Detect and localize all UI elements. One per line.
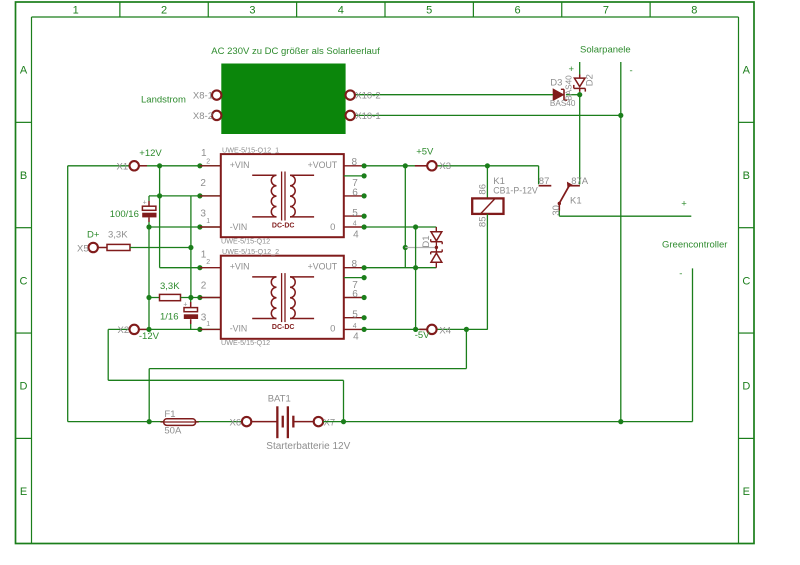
svg-text:D1: D1 <box>421 235 432 247</box>
svg-text:A: A <box>743 65 751 77</box>
svg-text:UWE-5/15-Q12: UWE-5/15-Q12 <box>221 236 270 245</box>
svg-text:BAS40: BAS40 <box>550 99 576 108</box>
svg-text:Solarpanele: Solarpanele <box>580 45 631 56</box>
svg-text:+12V: +12V <box>139 148 162 159</box>
svg-text:+VOUT: +VOUT <box>308 262 338 272</box>
svg-text:1: 1 <box>73 5 79 17</box>
svg-text:4: 4 <box>353 221 357 228</box>
svg-text:6: 6 <box>352 187 358 198</box>
svg-text:2: 2 <box>206 158 210 165</box>
svg-text:+VIN: +VIN <box>230 160 250 170</box>
svg-text:2: 2 <box>206 259 210 266</box>
svg-text:0: 0 <box>330 222 335 233</box>
svg-text:D: D <box>742 381 750 393</box>
svg-text:+VOUT: +VOUT <box>308 160 338 170</box>
svg-text:85: 85 <box>477 217 488 228</box>
svg-text:3,3K: 3,3K <box>108 229 128 240</box>
svg-text:1: 1 <box>201 148 207 159</box>
svg-text:1: 1 <box>206 321 210 328</box>
svg-text:3: 3 <box>249 5 255 17</box>
svg-text:CB1-P-12V: CB1-P-12V <box>493 186 538 196</box>
svg-text:5: 5 <box>352 208 358 219</box>
svg-text:A: A <box>20 65 28 77</box>
svg-text:-: - <box>679 269 682 280</box>
svg-text:2: 2 <box>161 5 167 17</box>
svg-text:E: E <box>743 486 750 498</box>
svg-text:E: E <box>20 486 27 498</box>
svg-text:0: 0 <box>330 324 335 335</box>
svg-text:F1: F1 <box>164 409 175 420</box>
svg-text:D3: D3 <box>550 78 562 89</box>
svg-text:4: 4 <box>338 5 344 17</box>
svg-text:4: 4 <box>353 323 357 330</box>
svg-text:UWE-5/15-Q12_2: UWE-5/15-Q12_2 <box>222 247 279 256</box>
svg-text:B: B <box>743 170 750 182</box>
svg-text:-VIN: -VIN <box>230 324 248 334</box>
svg-text:UWE-5/15-Q12: UWE-5/15-Q12 <box>221 338 270 347</box>
svg-text:K1: K1 <box>570 195 582 206</box>
svg-text:5: 5 <box>352 310 358 321</box>
svg-text:50A: 50A <box>164 425 182 436</box>
svg-text:X10-2: X10-2 <box>355 91 380 102</box>
svg-text:Greencontroller: Greencontroller <box>662 240 727 251</box>
svg-text:2: 2 <box>201 281 207 292</box>
svg-text:4: 4 <box>353 332 359 343</box>
svg-text:X8-2: X8-2 <box>193 111 213 122</box>
svg-text:+VIN: +VIN <box>230 262 250 272</box>
svg-text:6: 6 <box>515 5 521 17</box>
svg-text:-12V: -12V <box>139 331 160 342</box>
svg-text:Landstrom: Landstrom <box>141 95 186 106</box>
svg-text:BAS40: BAS40 <box>564 75 573 101</box>
svg-text:87A: 87A <box>571 176 589 187</box>
svg-text:Starterbatterie 12V: Starterbatterie 12V <box>266 441 350 452</box>
svg-text:+5V: +5V <box>416 147 434 158</box>
svg-text:8: 8 <box>352 157 358 168</box>
svg-text:86: 86 <box>477 184 488 195</box>
svg-text:5: 5 <box>426 5 432 17</box>
svg-text:X4: X4 <box>439 325 451 336</box>
svg-text:-: - <box>630 65 633 76</box>
svg-text:+: + <box>681 198 687 209</box>
svg-text:1/16: 1/16 <box>160 312 179 323</box>
svg-text:30: 30 <box>551 205 562 216</box>
svg-text:X2: X2 <box>118 325 130 336</box>
svg-text:8: 8 <box>352 259 358 270</box>
svg-text:100/16: 100/16 <box>110 209 139 220</box>
svg-text:C: C <box>20 275 28 287</box>
svg-text:X1: X1 <box>117 161 129 172</box>
svg-text:-VIN: -VIN <box>230 222 248 232</box>
svg-text:X10-1: X10-1 <box>355 111 380 122</box>
svg-text:C: C <box>742 275 750 287</box>
svg-text:AC 230V zu DC größer als Solar: AC 230V zu DC größer als Solarleerlauf <box>211 46 380 57</box>
svg-text:BAT1: BAT1 <box>268 394 291 405</box>
svg-text:DC-DC: DC-DC <box>272 324 295 331</box>
svg-text:87: 87 <box>539 176 550 187</box>
svg-text:3,3K: 3,3K <box>160 281 180 292</box>
svg-text:1: 1 <box>206 218 210 225</box>
svg-text:X6: X6 <box>230 417 242 428</box>
svg-text:DC-DC: DC-DC <box>272 222 295 229</box>
svg-text:7: 7 <box>603 5 609 17</box>
svg-text:D2: D2 <box>584 74 595 86</box>
svg-text:6: 6 <box>352 289 358 300</box>
svg-text:X8-1: X8-1 <box>193 91 213 102</box>
svg-text:X7: X7 <box>324 417 336 428</box>
svg-text:2: 2 <box>200 178 206 189</box>
svg-text:D: D <box>20 381 28 393</box>
svg-text:X5: X5 <box>77 243 89 254</box>
svg-text:8: 8 <box>691 5 697 17</box>
svg-text:UWE-5/15-Q12_1: UWE-5/15-Q12_1 <box>222 146 279 155</box>
svg-text:4: 4 <box>353 229 359 240</box>
svg-text:D+: D+ <box>87 229 100 240</box>
svg-text:X3: X3 <box>439 161 451 172</box>
svg-text:-5V: -5V <box>415 330 430 341</box>
svg-text:B: B <box>20 170 27 182</box>
svg-text:+: + <box>569 64 575 75</box>
